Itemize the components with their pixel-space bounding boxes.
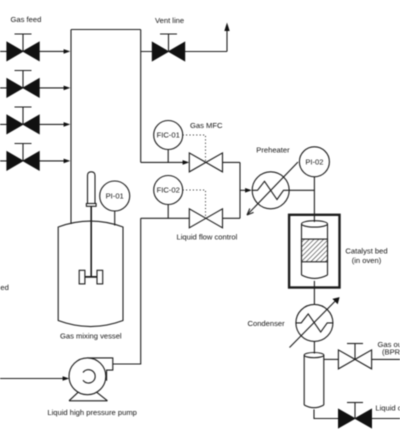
heat-exchanger condenser bbox=[290, 297, 340, 347]
heat-exchanger preheater bbox=[247, 162, 298, 215]
valve vent (filled) bbox=[152, 34, 185, 61]
valve V4 gas feed (filled) bbox=[7, 144, 40, 171]
arrowhead into preheater bbox=[245, 188, 252, 193]
wire gas line to MFC valve bbox=[141, 161, 184, 163]
svg-text:PI-02: PI-02 bbox=[305, 157, 323, 166]
wire gas header left leg bbox=[70, 30, 72, 225]
valve V1 gas feed (filled) bbox=[7, 34, 40, 61]
svg-text:Liquid high pressure pump: Liquid high pressure pump bbox=[47, 408, 136, 417]
svg-text:Preheater: Preheater bbox=[256, 145, 290, 154]
arrowhead vent up bbox=[224, 23, 229, 32]
vessel gas mixing bbox=[58, 221, 123, 326]
svg-text:Gas feed: Gas feed bbox=[11, 15, 42, 24]
wire liquid valve outlet bbox=[223, 217, 241, 219]
svg-text:(BPR): (BPR) bbox=[382, 348, 400, 357]
wire control signal FIC-01 to gas valve (dotted) bbox=[183, 135, 206, 161]
vessel gas-liquid separator bbox=[304, 353, 324, 408]
stirrer impeller bbox=[79, 270, 103, 284]
arrowhead feed 4 into header bbox=[64, 159, 71, 164]
valve gas MFC (open) bbox=[189, 153, 222, 172]
wire condenser outlet to separator bbox=[313, 341, 315, 353]
svg-text:Vent line: Vent line bbox=[155, 16, 184, 25]
valve liquid outlet (filled) bbox=[338, 403, 371, 428]
svg-text:Liquid outlet: Liquid outlet bbox=[375, 403, 400, 412]
oven box around catalyst bed bbox=[289, 215, 339, 288]
stirrer shaft bbox=[90, 206, 92, 277]
svg-text:Gas mixing vessel: Gas mixing vessel bbox=[60, 332, 122, 341]
instrument FIC-02 bbox=[154, 176, 183, 219]
wire separator bottom outlet bbox=[314, 409, 338, 418]
wire liquid feed to pump bbox=[0, 378, 64, 380]
wire feed line 3 bbox=[0, 123, 65, 125]
wire pump discharge bbox=[113, 218, 141, 364]
wire separator gas outlet bbox=[324, 358, 339, 360]
svg-text:FIC-02: FIC-02 bbox=[157, 186, 180, 195]
wire reactor outlet to condenser bbox=[313, 281, 315, 305]
instrument FIC-01 bbox=[154, 121, 183, 163]
wire gas valve outlet bbox=[223, 161, 241, 163]
wire vent riser bbox=[226, 30, 228, 52]
wire gas header top bbox=[71, 29, 141, 31]
wire mixing junction vertical bbox=[239, 162, 241, 218]
instrument PI-02 bbox=[299, 147, 329, 177]
valve V3 gas feed (filled) bbox=[7, 107, 40, 134]
reactor catalyst bed column bbox=[302, 221, 328, 279]
svg-text:(in oven): (in oven) bbox=[352, 256, 382, 265]
instrument PI-01 bbox=[100, 181, 130, 226]
wire combined feed to preheater bbox=[240, 189, 246, 191]
svg-text:Gas MFC: Gas MFC bbox=[190, 121, 223, 130]
arrowhead feed 2 into header bbox=[64, 86, 71, 91]
wire feed line 2 bbox=[0, 87, 65, 89]
arrowhead feed 3 into header bbox=[64, 122, 71, 127]
wire vent line bbox=[141, 51, 227, 53]
pump liquid high pressure bbox=[69, 358, 113, 401]
wire control signal FIC-02 to liquid valve (dotted) bbox=[183, 190, 206, 217]
wire preheater outlet bbox=[289, 189, 314, 191]
arrowhead into pump bbox=[63, 376, 70, 381]
wire gas header right leg bbox=[140, 30, 142, 163]
svg-text:PI-01: PI-01 bbox=[106, 192, 124, 201]
svg-text:Liquid feed: Liquid feed bbox=[0, 283, 9, 292]
wire feed line 1 bbox=[0, 50, 65, 52]
svg-text:FIC-01: FIC-01 bbox=[157, 131, 180, 140]
svg-text:Condenser: Condenser bbox=[248, 319, 286, 328]
svg-text:Liquid flow control: Liquid flow control bbox=[177, 233, 238, 242]
svg-text:Catalyst bed: Catalyst bed bbox=[345, 247, 387, 256]
wire feed line 4 bbox=[0, 160, 65, 162]
stirrer motor bbox=[86, 172, 96, 207]
wire gas outlet line bbox=[372, 358, 400, 360]
arrowhead gas into valve bbox=[183, 160, 190, 165]
valve liquid flow control (open) bbox=[189, 209, 222, 228]
arrowhead feed 1 into header bbox=[64, 49, 71, 54]
valve V2 gas feed (filled) bbox=[7, 71, 40, 98]
wire PI-02 stem / reactor inlet bbox=[313, 177, 315, 222]
valve gas outlet BPR (open) bbox=[338, 344, 371, 369]
wire liquid line to control valve bbox=[141, 217, 190, 219]
wire liquid outlet line bbox=[372, 418, 400, 420]
